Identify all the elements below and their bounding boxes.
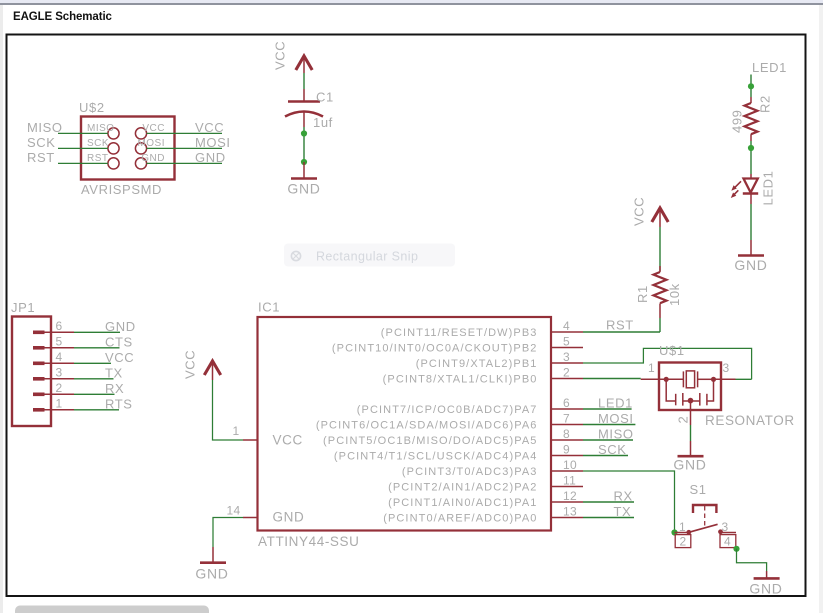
IC1 pin 4 PB3 stub — [551, 331, 583, 333]
svg-text:1uf: 1uf — [313, 115, 333, 130]
resonator pin 2 stub — [690, 401, 692, 425]
svg-text:(PCINT5/OC1B/MISO/DO/ADC5)PA5: (PCINT5/OC1B/MISO/DO/ADC5)PA5 — [323, 435, 537, 447]
svg-text:11: 11 — [563, 473, 576, 487]
S1 contact left — [686, 530, 691, 535]
svg-text:SCK: SCK — [87, 138, 109, 149]
svg-text:2: 2 — [56, 381, 63, 395]
svg-text:C1: C1 — [316, 90, 334, 105]
net RTS wire — [74, 409, 119, 411]
IC1 pin 14 stub — [243, 517, 258, 519]
svg-text:1: 1 — [56, 397, 63, 411]
svg-text:VCC: VCC — [183, 350, 198, 379]
resistor R2 pin bottom — [750, 134, 752, 141]
svg-text:3: 3 — [563, 350, 570, 364]
svg-text:2: 2 — [563, 365, 570, 379]
svg-text:6: 6 — [563, 396, 570, 410]
svg-text:GND: GND — [273, 510, 305, 525]
IC1 pin 6 PA7 stub — [551, 408, 583, 410]
U$2 pin GND pad — [135, 158, 146, 169]
JP1 pin 6 pad — [33, 331, 45, 335]
LED light arrow 2 — [734, 190, 738, 194]
ground symbol under S1 — [754, 577, 780, 580]
svg-text:2: 2 — [676, 416, 691, 424]
svg-text:1: 1 — [233, 424, 240, 438]
svg-text:RESONATOR: RESONATOR — [705, 413, 795, 428]
net CTS wire — [74, 347, 120, 349]
svg-text:1: 1 — [648, 361, 655, 375]
LED pin top — [750, 174, 752, 179]
junction dot at S1 pin1 — [671, 529, 677, 535]
cap left plates — [675, 394, 677, 406]
svg-text:(PCINT7/ICP/OC0B/ADC7)PA7: (PCINT7/ICP/OC0B/ADC7)PA7 — [357, 404, 538, 416]
S1 contact right — [718, 529, 723, 534]
JP1 pin 4 pad — [33, 362, 45, 366]
svg-text:R1: R1 — [635, 285, 650, 303]
IC1 pin 2 PB0 stub — [551, 378, 583, 380]
svg-text:5: 5 — [56, 335, 63, 349]
svg-text:(PCINT10/INT0/OC0A/CKOUT)PB2: (PCINT10/INT0/OC0A/CKOUT)PB2 — [332, 343, 538, 355]
U$2 pin VCC pad — [135, 128, 146, 139]
svg-text:MOSI: MOSI — [137, 138, 165, 149]
S1 pin 3 stub — [721, 532, 737, 534]
LED pin bottom — [750, 194, 752, 205]
wire pin 14 to GND — [213, 518, 243, 548]
capacitor C1 pin top — [303, 89, 305, 102]
net RST wire — [583, 331, 660, 333]
cap right plates — [699, 393, 701, 406]
svg-text:U$2: U$2 — [79, 100, 105, 115]
svg-text:LED1: LED1 — [752, 60, 787, 75]
connector U$2 body — [81, 117, 175, 180]
U$2 pin MISO pad — [108, 128, 119, 139]
junction dot — [301, 130, 307, 136]
svg-text:10: 10 — [563, 458, 577, 472]
svg-text:(PCINT3/T0/ADC3)PA3: (PCINT3/T0/ADC3)PA3 — [402, 466, 538, 478]
svg-text:GND: GND — [287, 181, 320, 197]
S1 pin2 frame — [675, 535, 691, 548]
svg-text:U$1: U$1 — [659, 343, 685, 358]
svg-text:RST: RST — [27, 150, 55, 165]
svg-text:ATTINY44-SSU: ATTINY44-SSU — [258, 534, 359, 549]
wire LED1 net — [750, 75, 752, 98]
svg-text:RX: RX — [105, 381, 124, 396]
svg-text:MISO: MISO — [27, 120, 63, 135]
svg-text:GND: GND — [195, 566, 228, 582]
svg-text:12: 12 — [563, 489, 577, 503]
svg-text:(PCINT0/AREF/ADC0)PA0: (PCINT0/AREF/ADC0)PA0 — [383, 513, 537, 525]
GND symbol pin — [212, 547, 214, 562]
svg-text:TX: TX — [614, 504, 632, 519]
net VCC wire — [74, 362, 111, 364]
svg-text:4: 4 — [563, 319, 570, 333]
svg-text:(PCINT8/XTAL1/CLKI)PB0: (PCINT8/XTAL1/CLKI)PB0 — [383, 374, 538, 386]
svg-text:3: 3 — [723, 361, 730, 375]
net GND wire — [74, 331, 120, 333]
power VCC symbol at IC pin 1 — [212, 362, 214, 380]
wire VCC to C1 — [303, 73, 305, 89]
svg-text:VCC: VCC — [142, 123, 165, 134]
cap center link — [683, 400, 700, 402]
IC1 pin 8 PA5 stub — [551, 439, 583, 441]
IC1 pin 3 PB1 stub — [551, 362, 583, 364]
resonator center junction — [688, 398, 694, 404]
svg-text:MISO: MISO — [598, 427, 634, 442]
wire net GND right — [147, 162, 222, 164]
JP1 pin 3 pad — [33, 377, 45, 381]
svg-text:TX: TX — [105, 366, 123, 381]
svg-text:2: 2 — [680, 535, 687, 549]
IC1 pin 10 PA3 stub — [551, 470, 583, 472]
switch S1 actuator dashed link — [704, 506, 706, 526]
resistor R1 zigzag — [654, 272, 667, 303]
svg-text:Rectangular Snip: Rectangular Snip — [316, 250, 418, 264]
svg-text:VCC: VCC — [273, 41, 288, 70]
IC IC1 body — [258, 317, 552, 531]
connector JP1 body — [12, 317, 51, 427]
capacitor C1 pin bottom — [303, 112, 305, 127]
GND symbol pin — [690, 441, 692, 456]
wire LED to GND — [750, 204, 752, 240]
svg-text:499: 499 — [730, 110, 745, 134]
U$2 pin SCK pad — [108, 143, 119, 154]
JP1 pin 1 stub — [45, 409, 75, 411]
wire pin3 to corner — [736, 378, 752, 380]
power VCC symbol above C1 — [303, 57, 305, 73]
svg-text:CTS: CTS — [105, 335, 133, 350]
crystal body — [686, 371, 694, 388]
wire net SCK left — [58, 147, 108, 149]
svg-text:AVRISPSMD: AVRISPSMD — [81, 182, 162, 197]
JP1 pin 2 pad — [33, 393, 45, 397]
JP1 pin 2 stub — [45, 393, 75, 395]
ground symbol under C1 — [291, 177, 317, 180]
resonator internal junction left — [664, 377, 669, 382]
U$2 pin RST pad — [108, 158, 119, 169]
net TX wire — [583, 517, 634, 519]
svg-text:GND: GND — [141, 153, 165, 164]
svg-text:RX: RX — [614, 489, 633, 504]
resonator U$1 body — [659, 363, 721, 411]
junction dot — [748, 145, 754, 151]
svg-text:4: 4 — [56, 350, 63, 364]
wire R1 to RST net — [659, 318, 661, 332]
svg-text:GND: GND — [734, 257, 767, 273]
ground symbol below IC — [200, 561, 226, 564]
svg-text:MOSI: MOSI — [195, 135, 231, 150]
wire S1 to GND — [737, 549, 767, 571]
resistor R1 pin bottom — [659, 303, 661, 318]
IC1 pin 13 PA0 stub — [551, 517, 583, 519]
svg-text:GND: GND — [673, 457, 706, 473]
svg-text:VCC: VCC — [105, 350, 134, 365]
LED LED1 cathode bar — [743, 192, 758, 195]
JP1 pin 6 stub — [45, 331, 75, 333]
svg-text:R2: R2 — [758, 95, 773, 113]
net MOSI wire — [583, 424, 635, 426]
IC1 pin 11 PA2 stub — [551, 486, 583, 488]
svg-text:(PCINT11/RESET/DW)PB3: (PCINT11/RESET/DW)PB3 — [381, 327, 538, 339]
net MISO wire — [583, 439, 633, 441]
svg-text:7: 7 — [563, 411, 570, 425]
svg-text:(PCINT6/OC1A/SDA/MOSI/ADC6)PA6: (PCINT6/OC1A/SDA/MOSI/ADC6)PA6 — [316, 420, 538, 432]
IC1 pin 7 PA6 stub — [551, 424, 583, 426]
resonator pin 3 stub — [714, 378, 736, 380]
crystal link left — [666, 378, 683, 380]
IC1 pin 12 PA1 stub — [551, 501, 583, 503]
cap left leg — [666, 379, 676, 401]
S1 pin4 frame — [720, 535, 736, 548]
net XTAL1 wire to resonator pin1 — [583, 378, 641, 380]
svg-text:GND: GND — [749, 581, 782, 597]
svg-text:14: 14 — [227, 504, 241, 518]
S1 pin 1 stub — [675, 532, 689, 534]
svg-text:S1: S1 — [690, 482, 707, 497]
wire VCC to R1 — [659, 227, 661, 271]
window top strip — [0, 0, 823, 3]
switch S1 actuator bracket — [693, 505, 716, 513]
right gray edge — [819, 5, 823, 613]
IC1 pin 9 PA4 stub — [551, 455, 583, 457]
svg-text:GND: GND — [105, 319, 136, 334]
JP1 pin 3 stub — [45, 378, 75, 380]
resonator internal junction right — [711, 377, 716, 382]
snipping tool overlay — [284, 244, 455, 267]
wire net VCC right — [147, 132, 222, 134]
U$2 pin MOSI pad — [135, 143, 146, 154]
net wire pin 10 to switch S1 — [583, 471, 675, 533]
svg-text:VCC: VCC — [273, 433, 303, 448]
svg-text:SCK: SCK — [598, 442, 627, 457]
svg-text:13: 13 — [563, 504, 577, 518]
svg-text:3: 3 — [56, 366, 63, 380]
wire R2 to LED — [750, 141, 752, 174]
svg-text:JP1: JP1 — [11, 300, 35, 315]
resonator pin 1 stub — [641, 378, 667, 380]
svg-text:EAGLE Schematic: EAGLE Schematic — [13, 11, 113, 23]
GND symbol pin — [766, 571, 768, 578]
IC1 pin 1 stub — [243, 439, 258, 441]
JP1 pin 1 pad — [33, 408, 45, 412]
resistor R1 pin top — [659, 266, 661, 272]
svg-text:8: 8 — [563, 427, 570, 441]
wire net MISO left — [58, 132, 108, 134]
wire pin2 to GND — [690, 425, 692, 441]
svg-text:4: 4 — [724, 535, 731, 549]
net SCK wire — [583, 455, 628, 457]
svg-text:GND: GND — [195, 150, 226, 165]
svg-text:MISO: MISO — [87, 123, 115, 134]
power VCC symbol above R1 — [659, 209, 661, 227]
left gray edge — [0, 5, 3, 613]
junction dot at S1 pin4 — [733, 546, 739, 552]
ground symbol under LED — [738, 254, 764, 257]
crystal link right — [698, 378, 714, 380]
GND symbol pin — [303, 162, 305, 178]
capacitor C1 top plate — [288, 100, 320, 103]
svg-text:IC1: IC1 — [258, 300, 280, 315]
JP1 pin 4 stub — [45, 362, 75, 364]
net XTAL2 wire to resonator pin3 — [583, 348, 752, 379]
svg-text:(PCINT1/AIN0/ADC1)PA1: (PCINT1/AIN0/ADC1)PA1 — [388, 497, 537, 509]
svg-text:6: 6 — [56, 319, 63, 333]
net RX wire — [583, 501, 634, 503]
resistor R2 zigzag — [745, 103, 758, 134]
wire net MOSI right — [147, 147, 222, 149]
wire VCC to pin 1 — [213, 380, 244, 440]
wire net RST left — [58, 162, 108, 164]
svg-text:LED1: LED1 — [761, 171, 776, 206]
JP1 pin 5 pad — [33, 346, 45, 350]
crystal left plate — [682, 371, 684, 387]
wire C1 to GND — [303, 127, 305, 162]
net LED1 wire — [583, 408, 632, 410]
svg-text:(PCINT9/XTAL2)PB1: (PCINT9/XTAL2)PB1 — [416, 358, 538, 370]
svg-text:(PCINT4/T1/SCL/USCK/ADC4)PA4: (PCINT4/T1/SCL/USCK/ADC4)PA4 — [334, 451, 538, 463]
svg-text:VCC: VCC — [195, 120, 224, 135]
bottom scrollbar thumb — [15, 606, 209, 613]
ground symbol under resonator — [678, 455, 704, 458]
svg-text:RST: RST — [87, 153, 109, 164]
svg-text:1: 1 — [679, 520, 686, 534]
LED light arrow 1 — [735, 181, 742, 188]
IC1 pin 5 PB2 stub — [551, 347, 583, 349]
svg-text:(PCINT2/AIN1/ADC2)PA2: (PCINT2/AIN1/ADC2)PA2 — [388, 482, 537, 494]
svg-text:VCC: VCC — [632, 197, 647, 226]
capacitor C1 curved plate — [285, 112, 323, 117]
resistor R2 pin top — [750, 97, 752, 103]
LED LED1 triangle — [744, 179, 758, 193]
svg-text:MOSI: MOSI — [598, 411, 634, 426]
cap right leg — [707, 379, 714, 401]
svg-text:5: 5 — [563, 334, 570, 348]
svg-text:RST: RST — [606, 318, 634, 333]
net RX wire — [74, 393, 115, 395]
svg-text:LED1: LED1 — [598, 396, 633, 411]
crystal right plate — [697, 371, 699, 387]
net TX wire — [74, 378, 114, 380]
svg-text:SCK: SCK — [27, 135, 56, 150]
GND symbol pin — [750, 240, 752, 255]
JP1 pin 5 stub — [45, 347, 75, 349]
svg-text:RTS: RTS — [105, 397, 133, 412]
svg-text:9: 9 — [563, 442, 570, 456]
S1 lever — [689, 524, 718, 532]
junction dot — [748, 83, 754, 89]
svg-text:10k: 10k — [667, 283, 682, 306]
junction dot — [301, 159, 307, 165]
